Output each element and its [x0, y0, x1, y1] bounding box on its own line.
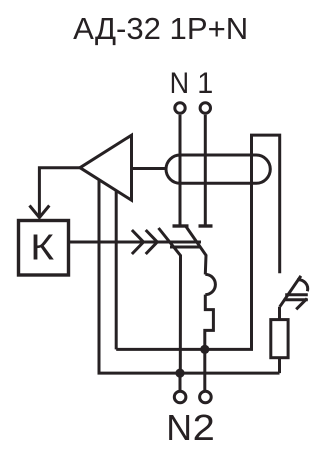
svg-text:N: N [166, 407, 192, 448]
wire amplifier supply right [115, 190, 118, 349]
moving contact pole 1 [186, 227, 206, 275]
mechanical trip linkage from K [69, 241, 202, 244]
wire button to resistor [278, 307, 281, 320]
junction dot line2 N [175, 369, 184, 378]
differential transformer toroid [166, 155, 270, 183]
wire N pole bottom [179, 373, 182, 391]
wire pole 1 top [204, 115, 207, 226]
thermal release bimetal jog [205, 295, 214, 350]
wire resistor down [278, 358, 281, 373]
svg-text:1: 1 [197, 67, 213, 100]
neutral bottom line 2 [98, 372, 280, 375]
test button SB [280, 276, 308, 309]
terminal N top [175, 103, 185, 113]
mechanical link between poles [170, 246, 201, 249]
svg-text:АД-32 1P+N: АД-32 1P+N [73, 11, 248, 46]
wire amplifier output [39, 168, 80, 216]
test circuit bottom line 1 [116, 135, 280, 349]
wire pole 2 down to terminal [203, 349, 206, 391]
chevron 2 [146, 230, 158, 254]
moving contact N pole [159, 228, 181, 373]
chevron 1 [132, 230, 144, 254]
wire toroid to amplifier [132, 167, 167, 170]
wire N pole top [179, 115, 182, 226]
fixed contact pole 1 [199, 224, 213, 227]
electromagnetic release coil [205, 274, 215, 294]
fixed contact N pole [173, 224, 189, 227]
op-amp amplifier triangle [80, 135, 132, 200]
terminal 1 top [200, 103, 210, 113]
svg-text:N: N [170, 67, 190, 100]
wire amplifier supply left [98, 180, 101, 374]
terminal N bottom [174, 391, 186, 403]
resistor R test [271, 320, 288, 358]
arrowhead into K [30, 206, 50, 218]
svg-text:К: К [30, 227, 54, 268]
relay K box [19, 221, 69, 276]
terminal 2 bottom [200, 391, 212, 403]
svg-text:2: 2 [193, 407, 215, 448]
junction dot line1 pole2 [200, 345, 209, 354]
